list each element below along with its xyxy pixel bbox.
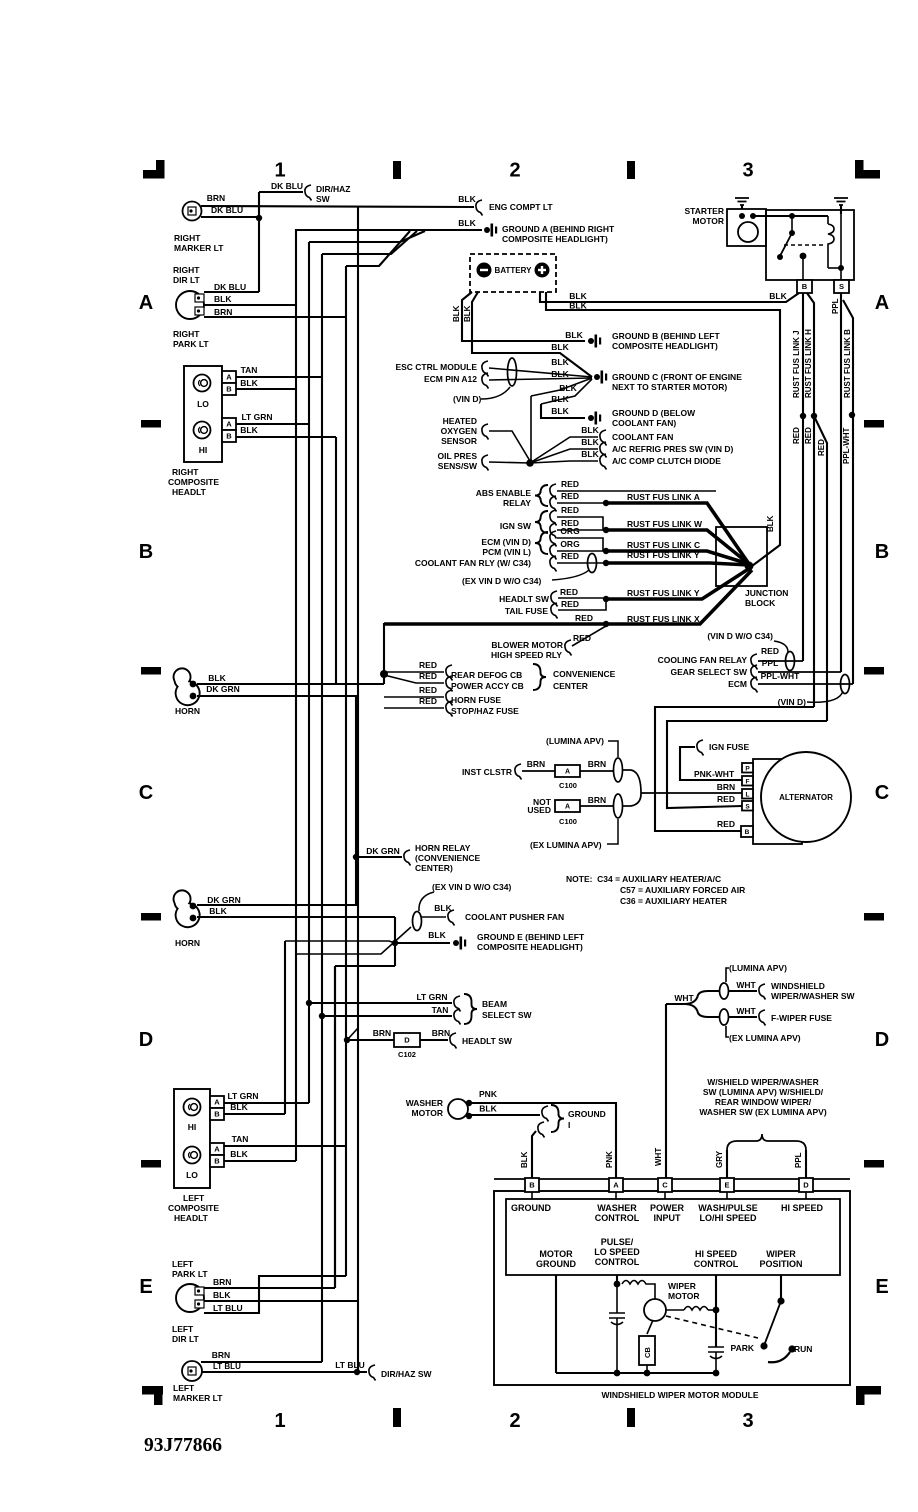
- svg-text:REAR DEFOG CB: REAR DEFOG CB: [451, 670, 522, 680]
- svg-text:RED: RED: [792, 427, 801, 444]
- svg-text:POSITION: POSITION: [759, 1259, 802, 1269]
- svg-text:DK BLU: DK BLU: [271, 181, 303, 191]
- svg-text:RUST FUS LINK Y: RUST FUS LINK Y: [627, 588, 700, 598]
- svg-text:E: E: [139, 1276, 152, 1298]
- svg-text:S: S: [839, 282, 844, 291]
- svg-text:GROUND D (BELOW: GROUND D (BELOW: [612, 408, 696, 418]
- svg-text:COMPOSITE HEADLIGHT): COMPOSITE HEADLIGHT): [502, 234, 608, 244]
- svg-text:RED: RED: [817, 439, 826, 456]
- svg-text:IGN FUSE: IGN FUSE: [709, 742, 749, 752]
- svg-text:WIPER: WIPER: [668, 1281, 696, 1291]
- svg-text:B: B: [214, 1157, 220, 1166]
- svg-text:3: 3: [742, 160, 753, 182]
- svg-text:ORG: ORG: [560, 539, 580, 549]
- svg-text:BLK: BLK: [230, 1102, 248, 1112]
- svg-text:RUST FUS LINK C: RUST FUS LINK C: [627, 540, 700, 550]
- svg-text:DIR/HAZ SW: DIR/HAZ SW: [381, 1369, 433, 1379]
- svg-text:NEXT TO STARTER MOTOR): NEXT TO STARTER MOTOR): [612, 382, 727, 392]
- svg-text:PULSE/: PULSE/: [601, 1237, 634, 1247]
- svg-text:PARK: PARK: [731, 1343, 755, 1353]
- svg-text:LO/HI SPEED: LO/HI SPEED: [699, 1213, 757, 1223]
- svg-text:BLK: BLK: [213, 1290, 231, 1300]
- svg-text:INST CLSTR: INST CLSTR: [462, 767, 512, 777]
- svg-text:RED: RED: [573, 633, 591, 643]
- svg-text:COOLANT FAN: COOLANT FAN: [612, 432, 673, 442]
- svg-text:WHT: WHT: [736, 1006, 756, 1016]
- svg-text:BLK: BLK: [581, 449, 599, 459]
- svg-text:GROUND A (BEHIND RIGHT: GROUND A (BEHIND RIGHT: [502, 224, 615, 234]
- svg-text:BRN: BRN: [214, 307, 232, 317]
- svg-text:LT GRN: LT GRN: [416, 992, 447, 1002]
- svg-text:PCM (VIN L): PCM (VIN L): [482, 547, 531, 557]
- svg-text:WASHER SW (EX LUMINA APV): WASHER SW (EX LUMINA APV): [699, 1107, 827, 1117]
- svg-text:SENS/SW: SENS/SW: [438, 461, 478, 471]
- svg-text:PNK: PNK: [479, 1089, 498, 1099]
- svg-text:TAIL FUSE: TAIL FUSE: [505, 606, 548, 616]
- svg-text:PNK-WHT: PNK-WHT: [694, 769, 735, 779]
- svg-text:RED: RED: [561, 491, 579, 501]
- svg-text:COMPOSITE HEADLIGHT): COMPOSITE HEADLIGHT): [477, 942, 583, 952]
- svg-text:HI: HI: [188, 1122, 197, 1132]
- svg-text:RED: RED: [419, 685, 437, 695]
- svg-text:E: E: [875, 1276, 888, 1298]
- svg-text:B: B: [226, 385, 232, 394]
- svg-text:GROUND: GROUND: [568, 1109, 606, 1119]
- svg-text:BLK: BLK: [428, 930, 446, 940]
- svg-text:A: A: [139, 292, 153, 314]
- svg-text:2: 2: [509, 1410, 520, 1432]
- svg-text:BLK: BLK: [569, 291, 587, 301]
- svg-text:LEFT: LEFT: [183, 1193, 205, 1203]
- svg-text:LT BLU: LT BLU: [335, 1360, 365, 1370]
- svg-text:B: B: [875, 541, 889, 563]
- svg-text:LEFT: LEFT: [173, 1383, 195, 1393]
- svg-text:IGN SW: IGN SW: [500, 521, 532, 531]
- svg-text:RUST FUS LINK J: RUST FUS LINK J: [792, 330, 801, 398]
- svg-text:C: C: [875, 782, 889, 804]
- svg-text:SW (LUMINA APV) W/SHIELD/: SW (LUMINA APV) W/SHIELD/: [703, 1087, 824, 1097]
- svg-text:C: C: [139, 782, 153, 804]
- svg-text:MOTOR: MOTOR: [539, 1249, 573, 1259]
- svg-text:RED: RED: [419, 660, 437, 670]
- svg-text:(EX VIN D W/O C34): (EX VIN D W/O C34): [432, 882, 512, 892]
- svg-text:WASHER: WASHER: [597, 1203, 637, 1213]
- svg-text:BLK: BLK: [551, 342, 569, 352]
- svg-text:A: A: [214, 1098, 220, 1107]
- svg-text:D: D: [875, 1029, 889, 1051]
- svg-text:A: A: [565, 804, 570, 811]
- svg-text:B: B: [139, 541, 153, 563]
- svg-text:TAN: TAN: [232, 1134, 249, 1144]
- svg-text:1: 1: [274, 160, 285, 182]
- svg-text:DK GRN: DK GRN: [206, 684, 240, 694]
- svg-text:CONTROL: CONTROL: [595, 1257, 640, 1267]
- svg-text:RED: RED: [419, 671, 437, 681]
- svg-text:INPUT: INPUT: [654, 1213, 682, 1223]
- svg-text:DK BLU: DK BLU: [214, 282, 246, 292]
- svg-text:C100: C100: [559, 817, 577, 826]
- svg-text:P: P: [745, 765, 750, 772]
- svg-text:BLK: BLK: [565, 330, 583, 340]
- svg-text:ECM (VIN D): ECM (VIN D): [481, 537, 531, 547]
- svg-text:RUST FUS LINK B: RUST FUS LINK B: [843, 329, 852, 398]
- svg-text:BLK: BLK: [551, 369, 569, 379]
- svg-text:BEAM: BEAM: [482, 999, 507, 1009]
- svg-text:BLK: BLK: [559, 383, 577, 393]
- svg-text:C36 = AUXILIARY HEATER: C36 = AUXILIARY HEATER: [620, 896, 727, 906]
- svg-text:PPL-WHT: PPL-WHT: [842, 427, 851, 464]
- svg-text:STARTER: STARTER: [684, 206, 724, 216]
- svg-text:PPL: PPL: [831, 298, 840, 314]
- svg-text:GRY: GRY: [715, 1150, 724, 1168]
- svg-text:RED: RED: [575, 613, 593, 623]
- svg-text:RED: RED: [717, 819, 735, 829]
- svg-text:RED: RED: [804, 427, 813, 444]
- svg-text:RIGHT: RIGHT: [173, 265, 200, 275]
- svg-text:B: B: [745, 829, 750, 836]
- svg-text:BLOWER MOTOR: BLOWER MOTOR: [491, 640, 563, 650]
- svg-text:(CONVENIENCE: (CONVENIENCE: [415, 853, 481, 863]
- svg-text:B: B: [529, 1181, 535, 1190]
- svg-text:F: F: [746, 778, 750, 785]
- svg-text:RUST FUS LINK W: RUST FUS LINK W: [627, 519, 703, 529]
- svg-text:BLOCK: BLOCK: [745, 598, 776, 608]
- svg-text:A/C REFRIG PRES SW (VIN D): A/C REFRIG PRES SW (VIN D): [612, 444, 734, 454]
- svg-text:LO SPEED: LO SPEED: [594, 1247, 640, 1257]
- svg-text:RELAY: RELAY: [503, 498, 531, 508]
- svg-text:PPL-WHT: PPL-WHT: [761, 671, 801, 681]
- svg-text:DIR/HAZ: DIR/HAZ: [316, 184, 350, 194]
- svg-text:REAR WINDOW WIPER/: REAR WINDOW WIPER/: [715, 1097, 812, 1107]
- svg-text:CENTER): CENTER): [415, 863, 453, 873]
- svg-text:MOTOR: MOTOR: [412, 1108, 443, 1118]
- svg-text:GROUND B (BEHIND LEFT: GROUND B (BEHIND LEFT: [612, 331, 720, 341]
- svg-text:ECM PIN A12: ECM PIN A12: [424, 374, 477, 384]
- svg-text:BLK: BLK: [551, 406, 569, 416]
- svg-text:WINDSHIELD: WINDSHIELD: [771, 981, 825, 991]
- svg-text:BRN: BRN: [588, 759, 606, 769]
- svg-text:WHT: WHT: [736, 980, 756, 990]
- svg-text:RIGHT: RIGHT: [173, 329, 200, 339]
- svg-text:WINDSHIELD WIPER MOTOR MODULE: WINDSHIELD WIPER MOTOR MODULE: [601, 1390, 758, 1400]
- svg-text:LT GRN: LT GRN: [227, 1091, 258, 1101]
- svg-text:DK GRN: DK GRN: [366, 846, 400, 856]
- svg-text:F-WIPER FUSE: F-WIPER FUSE: [771, 1013, 832, 1023]
- svg-text:BLK: BLK: [581, 437, 599, 447]
- svg-text:COMPOSITE: COMPOSITE: [168, 1203, 219, 1213]
- svg-text:HEADLT: HEADLT: [172, 487, 207, 497]
- svg-text:BLK: BLK: [458, 194, 476, 204]
- svg-text:A: A: [226, 420, 232, 429]
- svg-text:C: C: [662, 1181, 668, 1190]
- svg-text:RED: RED: [419, 696, 437, 706]
- svg-text:93J77866: 93J77866: [144, 1435, 222, 1456]
- svg-text:D: D: [404, 1036, 410, 1045]
- svg-text:RED: RED: [761, 646, 779, 656]
- svg-text:GROUND: GROUND: [536, 1259, 576, 1269]
- svg-text:E: E: [724, 1181, 729, 1190]
- svg-text:I: I: [568, 1120, 570, 1130]
- svg-text:TAN: TAN: [432, 1005, 449, 1015]
- svg-text:TAN: TAN: [241, 365, 258, 375]
- svg-text:A: A: [875, 292, 889, 314]
- svg-text:(EX LUMINA APV): (EX LUMINA APV): [729, 1033, 801, 1043]
- svg-text:RUST FUS LINK X: RUST FUS LINK X: [627, 614, 700, 624]
- svg-text:BLK: BLK: [208, 673, 226, 683]
- svg-text:COMPOSITE HEADLIGHT): COMPOSITE HEADLIGHT): [612, 341, 718, 351]
- svg-text:BLK: BLK: [569, 301, 587, 311]
- svg-text:GROUND: GROUND: [511, 1203, 551, 1213]
- svg-text:RUN: RUN: [794, 1344, 812, 1354]
- svg-text:BRN: BRN: [432, 1028, 450, 1038]
- svg-text:BRN: BRN: [717, 782, 735, 792]
- svg-text:ECM: ECM: [728, 679, 747, 689]
- svg-text:(VIN D W/O C34): (VIN D W/O C34): [707, 631, 773, 641]
- svg-text:BRN: BRN: [213, 1277, 231, 1287]
- svg-text:HI: HI: [199, 445, 208, 455]
- svg-text:(LUMINA APV): (LUMINA APV): [546, 736, 604, 746]
- svg-text:PPL: PPL: [762, 658, 779, 668]
- svg-text:BLK: BLK: [230, 1149, 248, 1159]
- svg-text:RED: RED: [561, 479, 579, 489]
- svg-text:LT BLU: LT BLU: [213, 1362, 241, 1371]
- svg-text:CONTROL: CONTROL: [595, 1213, 640, 1223]
- svg-text:HEADLT SW: HEADLT SW: [462, 1036, 513, 1046]
- svg-text:BLK: BLK: [551, 394, 569, 404]
- svg-text:USED: USED: [527, 805, 551, 815]
- svg-text:BATTERY: BATTERY: [495, 266, 533, 275]
- svg-text:BRN: BRN: [212, 1350, 230, 1360]
- svg-text:A: A: [226, 373, 232, 382]
- svg-text:ENG COMPT LT: ENG COMPT LT: [489, 202, 553, 212]
- svg-text:POWER ACCY CB: POWER ACCY CB: [451, 681, 524, 691]
- svg-text:HORN: HORN: [175, 938, 200, 948]
- svg-text:BLK: BLK: [581, 425, 599, 435]
- svg-text:GROUND C (FRONT OF ENGINE: GROUND C (FRONT OF ENGINE: [612, 372, 742, 382]
- svg-text:WHT: WHT: [674, 993, 694, 1003]
- svg-text:B: B: [802, 282, 808, 291]
- svg-text:1: 1: [274, 1410, 285, 1432]
- svg-text:(VIN D): (VIN D): [453, 394, 482, 404]
- svg-text:D: D: [803, 1181, 809, 1190]
- svg-text:DIR LT: DIR LT: [173, 275, 201, 285]
- svg-text:MARKER LT: MARKER LT: [174, 243, 224, 253]
- svg-text:HEATED: HEATED: [443, 416, 477, 426]
- svg-text:MOTOR: MOTOR: [668, 1291, 699, 1301]
- svg-text:GROUND E (BEHIND LEFT: GROUND E (BEHIND LEFT: [477, 932, 585, 942]
- svg-text:3: 3: [742, 1410, 753, 1432]
- svg-text:DK BLU: DK BLU: [211, 205, 243, 215]
- svg-text:(EX LUMINA APV): (EX LUMINA APV): [530, 840, 602, 850]
- svg-text:BLK: BLK: [458, 218, 476, 228]
- svg-text:MOTOR: MOTOR: [693, 216, 724, 226]
- svg-text:HEADLT SW: HEADLT SW: [499, 594, 550, 604]
- svg-text:CB: CB: [643, 1347, 652, 1358]
- svg-text:RED: RED: [561, 551, 579, 561]
- svg-text:HORN RELAY: HORN RELAY: [415, 843, 471, 853]
- svg-text:BLK: BLK: [209, 906, 227, 916]
- svg-text:STOP/HAZ FUSE: STOP/HAZ FUSE: [451, 706, 519, 716]
- svg-text:RED: RED: [561, 599, 579, 609]
- svg-text:BLK: BLK: [551, 357, 569, 367]
- svg-text:BLK: BLK: [452, 305, 461, 322]
- svg-text:BRN: BRN: [588, 795, 606, 805]
- svg-text:A: A: [565, 769, 570, 776]
- svg-text:RUST FUS LINK Y: RUST FUS LINK Y: [627, 550, 700, 560]
- svg-text:POWER: POWER: [650, 1203, 685, 1213]
- svg-text:BLK: BLK: [520, 1151, 529, 1168]
- svg-text:DK GRN: DK GRN: [207, 895, 241, 905]
- svg-text:ESC CTRL MODULE: ESC CTRL MODULE: [395, 362, 477, 372]
- svg-text:PPL: PPL: [794, 1152, 803, 1168]
- svg-text:MARKER LT: MARKER LT: [173, 1393, 223, 1403]
- svg-text:RIGHT: RIGHT: [172, 467, 199, 477]
- svg-text:BRN: BRN: [373, 1028, 391, 1038]
- svg-text:SELECT SW: SELECT SW: [482, 1010, 533, 1020]
- svg-text:DIR LT: DIR LT: [172, 1334, 200, 1344]
- svg-text:ALTERNATOR: ALTERNATOR: [779, 793, 833, 802]
- svg-text:GEAR SELECT SW: GEAR SELECT SW: [670, 667, 747, 677]
- svg-text:A/C COMP CLUTCH DIODE: A/C COMP CLUTCH DIODE: [612, 456, 721, 466]
- svg-text:CENTER: CENTER: [553, 681, 588, 691]
- svg-text:LO: LO: [197, 399, 209, 409]
- svg-text:COOLANT PUSHER FAN: COOLANT PUSHER FAN: [465, 912, 564, 922]
- svg-text:BLK: BLK: [240, 425, 258, 435]
- svg-text:A: A: [613, 1181, 619, 1190]
- svg-text:LEFT: LEFT: [172, 1324, 194, 1334]
- svg-text:HORN FUSE: HORN FUSE: [451, 695, 501, 705]
- svg-text:WASHER: WASHER: [406, 1098, 443, 1108]
- svg-text:S: S: [745, 803, 750, 810]
- svg-text:L: L: [746, 791, 750, 798]
- svg-text:ORG: ORG: [560, 526, 580, 536]
- svg-text:CONTROL: CONTROL: [694, 1259, 739, 1269]
- svg-text:COMPOSITE: COMPOSITE: [168, 477, 219, 487]
- svg-text:OIL PRES: OIL PRES: [437, 451, 477, 461]
- svg-text:(EX VIN D W/O C34): (EX VIN D W/O C34): [462, 576, 542, 586]
- svg-text:RED: RED: [717, 794, 735, 804]
- svg-text:NOTE: C34 = AUXILIARY HEATER/: NOTE: C34 = AUXILIARY HEATER/A/C: [566, 874, 721, 884]
- svg-text:C57 = AUXILIARY FORCED AIR: C57 = AUXILIARY FORCED AIR: [620, 885, 745, 895]
- svg-text:C102: C102: [398, 1050, 416, 1059]
- svg-text:SW: SW: [316, 194, 331, 204]
- svg-text:(LUMINA APV): (LUMINA APV): [729, 963, 787, 973]
- svg-text:ABS ENABLE: ABS ENABLE: [476, 488, 532, 498]
- svg-text:W/SHIELD WIPER/WASHER: W/SHIELD WIPER/WASHER: [707, 1077, 818, 1087]
- svg-text:HI SPEED: HI SPEED: [781, 1203, 824, 1213]
- svg-text:B: B: [226, 432, 232, 441]
- svg-text:PARK LT: PARK LT: [172, 1269, 208, 1279]
- svg-text:CONVENIENCE: CONVENIENCE: [553, 669, 616, 679]
- svg-text:HI SPEED: HI SPEED: [695, 1249, 738, 1259]
- svg-text:JUNCTION: JUNCTION: [745, 588, 788, 598]
- svg-text:B: B: [214, 1110, 220, 1119]
- svg-text:2: 2: [509, 160, 520, 182]
- svg-text:LO: LO: [186, 1170, 198, 1180]
- svg-text:HEADLT: HEADLT: [174, 1213, 209, 1223]
- svg-text:BLK: BLK: [463, 305, 472, 322]
- svg-text:RUST FUS LINK H: RUST FUS LINK H: [804, 329, 813, 398]
- svg-text:COOLANT FAN): COOLANT FAN): [612, 418, 676, 428]
- svg-text:D: D: [139, 1029, 153, 1051]
- svg-text:WIPER/WASHER SW: WIPER/WASHER SW: [771, 991, 856, 1001]
- svg-text:OXYGEN: OXYGEN: [441, 426, 477, 436]
- svg-text:SENSOR: SENSOR: [441, 436, 477, 446]
- svg-text:LT GRN: LT GRN: [241, 412, 272, 422]
- svg-text:COOLANT FAN RLY (W/ C34): COOLANT FAN RLY (W/ C34): [415, 558, 531, 568]
- svg-text:(VIN D): (VIN D): [778, 697, 807, 707]
- svg-text:PARK LT: PARK LT: [173, 339, 209, 349]
- svg-text:WHT: WHT: [654, 1148, 663, 1166]
- svg-text:BLK: BLK: [240, 378, 258, 388]
- svg-text:LEFT: LEFT: [172, 1259, 194, 1269]
- svg-text:BLK: BLK: [214, 294, 232, 304]
- svg-text:BLK: BLK: [769, 291, 787, 301]
- svg-text:C100: C100: [559, 781, 577, 790]
- svg-text:BLK: BLK: [434, 903, 452, 913]
- svg-text:PNK: PNK: [605, 1151, 614, 1168]
- svg-text:BRN: BRN: [207, 193, 225, 203]
- svg-text:BLK: BLK: [479, 1104, 497, 1114]
- svg-text:A: A: [214, 1145, 220, 1154]
- svg-text:RUST FUS LINK A: RUST FUS LINK A: [627, 492, 700, 502]
- svg-text:COOLING FAN RELAY: COOLING FAN RELAY: [658, 655, 748, 665]
- svg-text:HORN: HORN: [175, 706, 200, 716]
- svg-text:RED: RED: [560, 587, 578, 597]
- svg-text:WIPER: WIPER: [766, 1249, 796, 1259]
- svg-text:LT BLU: LT BLU: [213, 1303, 243, 1313]
- svg-text:WASH/PULSE: WASH/PULSE: [698, 1203, 758, 1213]
- svg-text:RIGHT: RIGHT: [174, 233, 201, 243]
- svg-text:HIGH SPEED RLY: HIGH SPEED RLY: [491, 650, 562, 660]
- svg-text:RED: RED: [561, 505, 579, 515]
- svg-text:BRN: BRN: [527, 759, 545, 769]
